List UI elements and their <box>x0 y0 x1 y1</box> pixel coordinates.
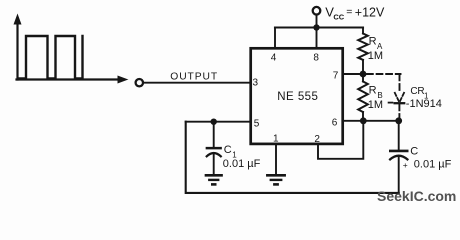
node B junction <box>360 117 367 124</box>
wire output to pin 3 <box>143 82 251 84</box>
wire pin 5 <box>186 121 251 123</box>
ground (pin 1) <box>267 175 284 184</box>
wire top rail Vcc <box>275 26 363 28</box>
label Vcc <box>325 4 385 21</box>
svg-text:C: C <box>410 145 418 157</box>
svg-text:1: 1 <box>273 134 279 145</box>
wire dashed branch to CR1 <box>367 74 401 118</box>
svg-text:0.01 µF: 0.01 µF <box>414 158 452 170</box>
svg-text:-1N914: -1N914 <box>406 98 442 110</box>
svg-text:5: 5 <box>254 119 260 130</box>
waveform horizontal axis <box>17 76 129 84</box>
wire pin 6 <box>343 120 399 122</box>
svg-text:1M: 1M <box>368 50 383 62</box>
terminal Vcc circle <box>313 7 321 15</box>
svg-text:NE 555: NE 555 <box>277 91 318 103</box>
label NE 555 and pin numbers <box>253 52 339 145</box>
svg-text:+12V: +12V <box>355 5 385 19</box>
svg-text:R: R <box>369 85 377 97</box>
svg-text:3: 3 <box>253 77 259 88</box>
capacitor C <box>390 121 407 193</box>
svg-text:+: + <box>403 160 408 170</box>
wire left loop to bottom rail <box>186 122 399 193</box>
svg-text:CR: CR <box>410 86 424 97</box>
op-amp U1 NE 555 box <box>251 48 343 144</box>
ground (C1) <box>206 175 222 184</box>
wire pin 2 loop to node B <box>318 124 363 159</box>
wire Vcc stem <box>316 15 318 28</box>
label C value <box>403 145 452 170</box>
resistor RA <box>358 28 368 75</box>
svg-text:=: = <box>346 6 352 18</box>
svg-text:6: 6 <box>332 118 338 129</box>
label CR1 1N914 <box>406 86 442 110</box>
node pin5/C1 junction <box>211 119 217 125</box>
wire pin 7 <box>343 73 363 75</box>
label RA value <box>368 36 383 63</box>
svg-text:0.01 µF: 0.01 µF <box>223 158 261 170</box>
capacitor C1 <box>207 122 221 175</box>
svg-text:7: 7 <box>333 70 339 81</box>
svg-text:SeekIC.com: SeekIC.com <box>377 188 456 204</box>
label RB value <box>368 85 383 112</box>
svg-text:4: 4 <box>271 53 277 64</box>
svg-text:C: C <box>224 144 232 156</box>
svg-text:1M: 1M <box>368 99 383 111</box>
svg-text:CC: CC <box>333 13 344 22</box>
square wave trace <box>19 36 83 78</box>
waveform vertical axis <box>14 14 22 80</box>
svg-text:R: R <box>369 36 377 48</box>
output terminal circle <box>136 79 143 86</box>
wire pin 8 <box>316 28 318 49</box>
node Vcc junction <box>313 24 319 30</box>
svg-text:2: 2 <box>314 134 320 145</box>
wire pin 4 <box>274 28 276 49</box>
diode CR1 <box>389 93 405 103</box>
node A junction RA/RB/pin7 <box>360 71 367 78</box>
svg-text:8: 8 <box>313 52 319 63</box>
wire pin 1 <box>275 144 277 175</box>
resistor RB <box>358 74 368 121</box>
node C junction <box>395 117 402 124</box>
svg-text:OUTPUT: OUTPUT <box>170 71 218 82</box>
label C1 value <box>223 144 261 170</box>
